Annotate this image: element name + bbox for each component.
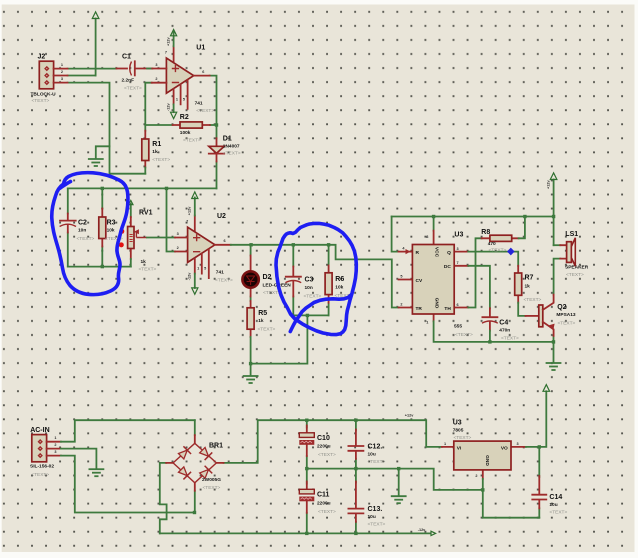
svg-text:C13.: C13.: [368, 506, 383, 513]
svg-text:470: 470: [488, 241, 496, 247]
node junction C14 tap: [538, 445, 541, 448]
svg-text:U1: U1: [196, 45, 205, 52]
wire AC pin1 riser to top rail: [61, 420, 195, 442]
wire R2 left: [145, 124, 172, 126]
wire 555 GND rail: [434, 321, 554, 342]
wire R5 bottom to C3/R6 bottom: [251, 315, 308, 363]
ground (Q2 emitter): [547, 363, 561, 370]
wire R3 column: [101, 188, 103, 266]
svg-text:2200u: 2200u: [317, 501, 331, 507]
wire +12 rail middle y=216.5: [392, 216, 554, 218]
svg-text:<TEXT>: <TEXT>: [524, 297, 542, 303]
wire U1 output down to D1: [210, 76, 217, 139]
svg-text:<TEXT>: <TEXT>: [501, 336, 519, 342]
ground (AC-IN): [89, 469, 103, 476]
node junction C11 on -12 rail: [305, 532, 308, 535]
svg-text:<TEXT>: <TEXT>: [203, 485, 221, 491]
svg-text:7: 7: [165, 51, 167, 55]
annotation blue loop around C2 R3: [52, 173, 128, 295]
svg-text:C12.: C12.: [368, 444, 383, 451]
node junction C13 on -12 rail: [354, 532, 357, 535]
node junction 0V spur on GND pin column: [481, 488, 484, 491]
svg-text:8: 8: [426, 235, 428, 239]
svg-text:GND: GND: [484, 455, 490, 466]
wire bottom bus y=266.6: [68, 266, 131, 268]
svg-text:6: 6: [457, 303, 459, 307]
capacitor C3: [285, 267, 321, 300]
svg-text:3: 3: [517, 442, 519, 446]
svg-text:7: 7: [186, 220, 188, 224]
capacitor C2: [60, 214, 95, 243]
resistor R5: [247, 301, 275, 364]
svg-text:3: 3: [177, 232, 179, 236]
svg-text:<TEXT>: <TEXT>: [549, 510, 567, 516]
svg-text:10k: 10k: [107, 228, 115, 234]
svg-text:LS1: LS1: [565, 231, 578, 238]
node red dot RV1 upper: [119, 229, 124, 234]
svg-text:C10: C10: [317, 435, 330, 442]
wire D1 bottom to bus: [216, 162, 218, 189]
transistor Q2: [526, 295, 576, 336]
wire C3 column: [292, 245, 294, 316]
svg-text:R7: R7: [525, 275, 534, 282]
svg-text:741: 741: [216, 270, 224, 276]
svg-text:+12v: +12v: [547, 180, 551, 189]
op-amp U2: [175, 192, 233, 294]
svg-text:<TEXT>: <TEXT>: [215, 277, 233, 283]
svg-text:U2: U2: [217, 213, 226, 220]
svg-text:TR: TR: [416, 306, 423, 312]
wire 555 reset drop: [392, 217, 399, 252]
node junction R2/D1: [215, 123, 218, 126]
connector AC-IN: [30, 427, 61, 478]
node junction 0V at C10: [305, 467, 308, 470]
wire C10 column: [306, 420, 308, 468]
svg-text:<TEXT>: <TEXT>: [258, 327, 276, 333]
svg-text:SIL-156-02: SIL-156-02: [30, 464, 54, 470]
svg-text:R1: R1: [152, 141, 161, 148]
capacitor C12: [348, 430, 385, 466]
svg-text:-12v: -12v: [167, 103, 171, 111]
capacitor C11: [299, 482, 336, 516]
resistor R3: [99, 209, 123, 247]
svg-text:D2: D2: [263, 274, 272, 281]
svg-text:R6: R6: [335, 276, 344, 283]
svg-text:6: 6: [202, 70, 204, 74]
svg-text:<TEXT>: <TEXT>: [124, 86, 142, 92]
svg-text:1: 1: [54, 436, 56, 440]
svg-text:-12v: -12v: [418, 528, 426, 532]
bridge rectifier BR1: [166, 435, 223, 491]
svg-text:<TEXT>: <TEXT>: [152, 157, 170, 163]
ground (below R5): [244, 376, 258, 383]
capacitor C1: [117, 54, 153, 92]
svg-text:1k: 1k: [258, 318, 264, 324]
svg-text:1: 1: [426, 321, 428, 325]
op-amp U1: [152, 30, 215, 119]
wire J2 pin3 down to R1 bottom: [68, 83, 146, 174]
wire C12 column: [355, 420, 357, 468]
svg-text:100k: 100k: [180, 130, 191, 136]
svg-text:<TEXT>: <TEXT>: [455, 332, 473, 338]
svg-text:2200u: 2200u: [317, 444, 331, 450]
resistor R2: [173, 114, 210, 144]
svg-text:+12v: +12v: [405, 414, 414, 418]
svg-text:<TEXT>: <TEXT>: [318, 509, 336, 515]
regulator U3 7805: [442, 420, 526, 479]
capacitor C14: [532, 476, 567, 516]
svg-text:10u: 10u: [368, 514, 376, 520]
svg-text:2: 2: [155, 77, 157, 81]
svg-text:<TEXT>: <TEXT>: [31, 472, 49, 478]
svg-text:2.2nF: 2.2nF: [122, 78, 135, 84]
svg-text:2: 2: [61, 70, 63, 74]
svg-text:2W005G: 2W005G: [202, 477, 221, 483]
wire speaker top: [554, 244, 561, 246]
node junction C3 drop: [292, 243, 295, 246]
svg-text:1k: 1k: [141, 259, 147, 265]
svg-text:<TEXT>: <TEXT>: [318, 452, 336, 458]
wire C13 column: [355, 469, 357, 534]
svg-text:VO: VO: [501, 446, 508, 452]
svg-text:VCC: VCC: [434, 247, 440, 258]
wire bridge left staircase to -12 rail: [160, 463, 167, 534]
svg-text:C3: C3: [305, 277, 314, 284]
svg-text:1N4007: 1N4007: [223, 143, 240, 149]
wire top rail down to bridge top: [194, 420, 196, 435]
potentiometer RV1: [125, 199, 175, 273]
node junction R6 drop: [327, 243, 330, 246]
node junction C12 on +12 rail: [354, 419, 357, 422]
svg-text:GND: GND: [434, 298, 440, 309]
wire bottom bus C3-R6: [293, 314, 328, 316]
svg-text:7805: 7805: [453, 428, 464, 434]
wire 555 Q output to R7: [468, 252, 518, 266]
node junction C10 on +12 rail: [305, 419, 308, 422]
svg-text:<TEXT>: <TEXT>: [32, 98, 50, 104]
wire 555 TH loop to R8 left: [468, 238, 481, 307]
node junction 0V at C12: [354, 467, 357, 470]
svg-text:+12v: +12v: [167, 37, 171, 46]
svg-text:CV: CV: [416, 278, 423, 284]
wire J2 pin2 to arrow riser: [68, 75, 96, 77]
svg-text:<TEXT>: <TEXT>: [566, 272, 584, 278]
diode D1: [209, 136, 241, 162]
power arrow (above regulator): [543, 385, 550, 392]
svg-text:AC-IN: AC-IN: [30, 427, 49, 434]
wire R2 right to D1 column: [210, 124, 217, 126]
svg-text:10n: 10n: [78, 228, 86, 234]
wire horizontal bus y=188.4: [68, 187, 217, 189]
timer U3 555: [399, 231, 474, 338]
capacitor C10: [299, 426, 336, 459]
svg-text:U3: U3: [454, 232, 463, 239]
led D2: [242, 256, 291, 297]
resistor R1: [142, 131, 171, 174]
wire -12v bottom rail: [160, 532, 431, 534]
resistor R8: [481, 217, 525, 254]
svg-text:MPSA13: MPSA13: [556, 312, 576, 318]
resistor R7: [515, 266, 542, 316]
wire C2 column: [67, 188, 69, 266]
wire J2 pin1 to C1: [68, 68, 117, 70]
svg-text:1: 1: [176, 98, 178, 102]
svg-text:1: 1: [61, 63, 63, 67]
svg-text:Q2: Q2: [557, 304, 566, 311]
node junction bottom bus tee: [306, 314, 309, 317]
svg-text:5: 5: [204, 267, 206, 271]
svg-text:7: 7: [457, 261, 459, 265]
svg-text:<TEXT>: <TEXT>: [558, 321, 576, 327]
svg-text:D1: D1: [223, 136, 232, 143]
power arrow +12v right: [547, 173, 557, 245]
svg-text:BR1: BR1: [209, 443, 223, 450]
svg-text:5: 5: [400, 275, 402, 279]
svg-text:741: 741: [195, 101, 203, 107]
svg-text:3: 3: [457, 247, 459, 251]
svg-text:DC: DC: [444, 264, 451, 270]
wire U2 minus-input column (U1 area): [145, 83, 151, 131]
svg-text:1k: 1k: [152, 149, 158, 155]
svg-text:<TEXT>: <TEXT>: [139, 267, 157, 273]
wire speaker bottom to Q2 collector: [554, 259, 561, 295]
svg-text:<TEXT>: <TEXT>: [454, 435, 472, 441]
svg-text:R5: R5: [258, 310, 267, 317]
svg-text:R2: R2: [180, 114, 189, 121]
node junction R3 top: [101, 187, 104, 190]
wire AC pin2 to ground: [61, 449, 97, 469]
node junction bridge bottom: [193, 511, 196, 514]
wire regulator GND to C14 bottom: [483, 479, 540, 518]
wire U2 minus input from bus: [167, 188, 176, 251]
svg-text:10u: 10u: [549, 502, 557, 508]
node junction R3 bottom: [101, 265, 104, 268]
capacitor C4: [482, 308, 519, 342]
wire bridge bottom lead: [194, 491, 196, 513]
svg-text:2: 2: [475, 474, 477, 478]
svg-text:C14: C14: [549, 494, 562, 501]
ground (below J2): [89, 159, 103, 166]
svg-text:C11: C11: [317, 492, 330, 499]
svg-text:C2: C2: [78, 220, 87, 227]
wire U2 output bus to 555: [231, 245, 399, 308]
svg-text:10u: 10u: [368, 452, 376, 458]
svg-text:3: 3: [54, 450, 56, 454]
annotation blue loop around C3 R6: [276, 223, 356, 334]
wire bridge right to +12 rail: [224, 420, 442, 463]
svg-text:C1: C1: [122, 54, 131, 61]
node junction 555 VCC riser: [432, 215, 435, 218]
node junction C4 on gnd rail: [488, 340, 491, 343]
wire emitter to ground: [553, 336, 555, 362]
svg-text:2: 2: [400, 303, 402, 307]
node red dot RV1 lower: [119, 242, 124, 247]
svg-text:<TEXT>: <TEXT>: [196, 108, 214, 114]
node junction R5 ground tee: [249, 362, 252, 365]
svg-text:555: 555: [454, 324, 462, 330]
node junction Q2 emitter on gnd rail: [552, 340, 555, 343]
svg-text:R3: R3: [107, 220, 116, 227]
svg-text:+12v: +12v: [188, 206, 192, 215]
ground (0V rail): [392, 496, 406, 503]
wire ground stub on 0V rail: [398, 469, 400, 496]
svg-text:U3: U3: [453, 420, 462, 427]
svg-text:C4: C4: [499, 320, 508, 327]
svg-text:470n: 470n: [499, 328, 510, 334]
svg-text:6: 6: [224, 239, 226, 243]
svg-text:<TEXT>: <TEXT>: [223, 151, 241, 157]
wire C10-C11 link: [306, 469, 308, 534]
svg-text:Q: Q: [447, 250, 451, 256]
svg-text:<TEXT>: <TEXT>: [183, 138, 201, 144]
svg-text:J2: J2: [38, 54, 46, 61]
connector J2: [31, 54, 68, 105]
node junction R8 riser: [523, 215, 526, 218]
wire 0V rail: [307, 469, 483, 490]
svg-text:RV1: RV1: [139, 210, 153, 217]
resistor R6: [325, 266, 352, 303]
svg-text:<TEXT>: <TEXT>: [304, 294, 322, 300]
svg-text:10n: 10n: [305, 285, 313, 291]
speaker LS1: [560, 231, 588, 278]
node blue marker on Q wire: [507, 248, 515, 256]
node junction 0V at ground stub: [397, 467, 400, 470]
svg-text:R8: R8: [481, 229, 490, 236]
wire ground stub near J2: [96, 146, 110, 158]
wire D2 column: [250, 245, 252, 301]
svg-text:SPEAKER: SPEAKER: [565, 265, 589, 271]
wire ground stub below R5: [250, 364, 252, 375]
svg-text:1k: 1k: [525, 284, 531, 290]
power arrow (top-left, unlabeled): [92, 12, 99, 76]
wire 555 DC to C4: [468, 266, 490, 309]
svg-text:<TEXT>: <TEXT>: [368, 459, 386, 465]
svg-text:<TEXT>: <TEXT>: [77, 236, 95, 242]
svg-text:1: 1: [444, 442, 446, 446]
svg-text:TBLOCK-U: TBLOCK-U: [31, 92, 57, 98]
svg-text:-12v: -12v: [188, 272, 192, 280]
node junction D2 drop: [249, 243, 252, 246]
svg-text:TH: TH: [444, 306, 451, 312]
svg-text:<TEXT>: <TEXT>: [489, 248, 507, 254]
wire AC pin3 down to bridge bottom: [61, 456, 195, 513]
svg-text:2: 2: [54, 443, 56, 447]
svg-text:1: 1: [197, 267, 199, 271]
node junction U2minus riser on bus: [165, 187, 168, 190]
power arrow -12v rail end: [418, 528, 436, 536]
wire C14 column: [538, 447, 540, 518]
svg-text:3: 3: [61, 77, 63, 81]
svg-text:2: 2: [177, 246, 179, 250]
wire R6 column: [328, 245, 330, 316]
svg-text:R: R: [416, 250, 420, 256]
svg-text:5: 5: [183, 98, 185, 102]
svg-text:3: 3: [155, 63, 157, 67]
svg-text:10k: 10k: [335, 285, 343, 291]
wire 555 VCC riser: [433, 217, 435, 231]
node junction +12 arrow column: [552, 215, 555, 218]
capacitor C13: [348, 482, 385, 528]
svg-text:VI: VI: [457, 446, 462, 452]
wire VO to +5 arrow riser: [526, 391, 546, 447]
svg-text:<TEXT>: <TEXT>: [368, 522, 386, 528]
